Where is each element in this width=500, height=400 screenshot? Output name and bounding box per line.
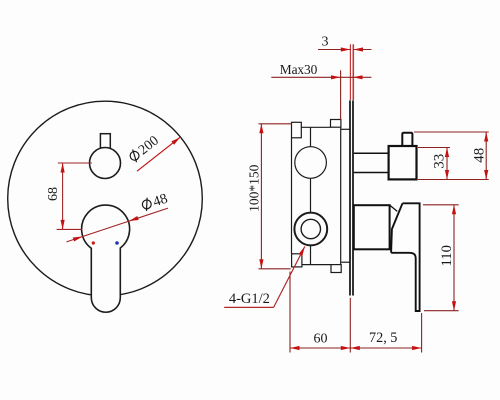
- svg-text:33: 33: [432, 154, 448, 169]
- svg-text:68: 68: [46, 187, 61, 201]
- svg-text:3: 3: [322, 35, 329, 50]
- svg-text:60: 60: [314, 332, 328, 347]
- svg-text:48: 48: [471, 148, 487, 163]
- svg-text:72, 5: 72, 5: [369, 330, 397, 346]
- svg-text:Max30: Max30: [280, 62, 318, 77]
- svg-text:4-G1/2: 4-G1/2: [229, 291, 270, 307]
- svg-text:110: 110: [439, 245, 455, 266]
- svg-text:100*150: 100*150: [246, 164, 261, 212]
